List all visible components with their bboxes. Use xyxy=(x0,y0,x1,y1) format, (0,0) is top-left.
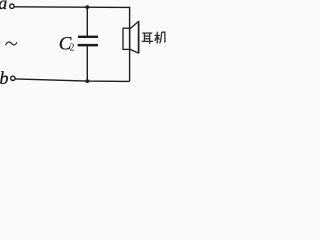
label 耳机 (drawn strokes: 耳) xyxy=(142,33,153,44)
earphone (speaker) driver rectangle xyxy=(123,28,130,49)
label 耳机 (drawn strokes: 机) xyxy=(155,32,166,44)
wire capacitor top lead xyxy=(86,7,88,36)
terminal a xyxy=(10,4,14,8)
wire capacitor bottom lead xyxy=(86,46,88,81)
AC source tilde xyxy=(6,42,17,45)
wire bottom horizontal xyxy=(16,79,130,82)
svg-text:b: b xyxy=(0,68,9,88)
node junction bottom xyxy=(85,79,89,83)
svg-text:2: 2 xyxy=(70,43,75,54)
wire top horizontal xyxy=(15,6,131,9)
capacitor C2 xyxy=(78,36,98,47)
earphone horn xyxy=(130,21,139,53)
label C2 xyxy=(59,34,75,55)
terminal b xyxy=(11,76,15,80)
node junction top xyxy=(85,5,89,9)
wire right vertical branch xyxy=(129,7,131,82)
svg-text:a: a xyxy=(0,0,7,13)
